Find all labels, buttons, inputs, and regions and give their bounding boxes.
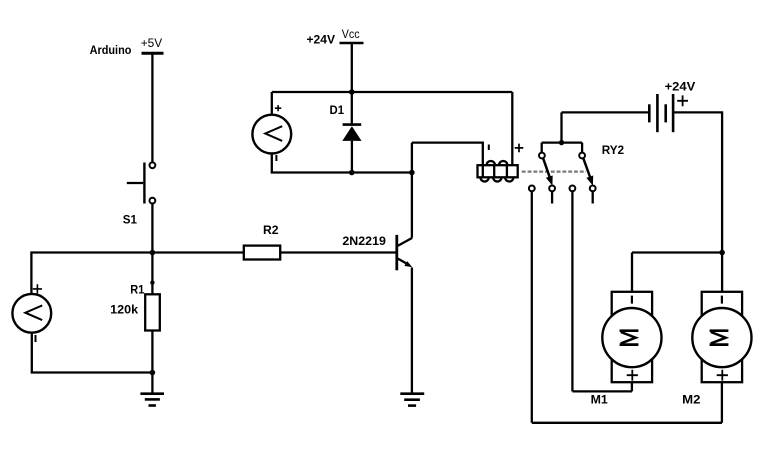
- wire contact3 to M1: [571, 191, 573, 391]
- relay contacts RY2: [529, 112, 596, 203]
- node junction Vcc rail: [349, 89, 355, 95]
- node junction collector/bottom rail: [409, 170, 415, 176]
- motor M1: [602, 253, 661, 392]
- resistor R2: [244, 246, 280, 260]
- svg-text:R1: R1: [130, 282, 144, 296]
- wire emitter down: [411, 268, 413, 394]
- svg-text:R2: R2: [263, 223, 279, 237]
- ground (emitter): [400, 394, 424, 406]
- node junction base: [150, 250, 156, 256]
- wire R2 to base: [280, 251, 396, 253]
- node junction relay top: [559, 140, 564, 145]
- svg-text:D1: D1: [330, 103, 345, 117]
- relay coil RY2: [478, 161, 518, 182]
- pushbutton S1: [127, 162, 156, 203]
- ground (under R1): [140, 373, 164, 406]
- power supply +24V Vcc: [340, 43, 364, 92]
- svg-text:120k: 120k: [110, 303, 138, 317]
- wire collector up: [411, 143, 413, 238]
- voltage probe V1 (middle): [252, 92, 291, 161]
- svg-text:Arduino: Arduino: [90, 43, 132, 57]
- wire top rail: [272, 91, 513, 93]
- diode D1: [342, 92, 361, 173]
- wire left source bottom: [32, 333, 153, 373]
- label coil plus: [515, 144, 524, 153]
- power supply +5V: [142, 53, 164, 162]
- wire S1 to base node: [151, 204, 153, 253]
- svg-text:S1: S1: [123, 212, 138, 226]
- svg-text:2N2219: 2N2219: [342, 234, 386, 248]
- wire bottom rail: [532, 422, 722, 424]
- label battery plus: [677, 95, 688, 106]
- svg-text:RY2: RY2: [602, 143, 625, 157]
- wire relay to battery: [562, 111, 650, 113]
- wire top rail to coil right terminal: [511, 92, 513, 165]
- label coil minus: [488, 145, 490, 151]
- voltage probe V2 (left): [12, 284, 51, 342]
- wire node to R1: [151, 253, 153, 295]
- svg-text:+24V: +24V: [665, 80, 696, 94]
- svg-text:Vcc: Vcc: [342, 27, 360, 41]
- transistor Q1 2N2219: [397, 235, 413, 270]
- wire middle source bottom rail: [272, 154, 412, 173]
- wire motor top rail: [632, 251, 722, 253]
- dashed mechanical link: [522, 171, 586, 173]
- svg-text:M2: M2: [682, 392, 701, 406]
- wire M1 bottom: [572, 390, 632, 392]
- wire battery to right rail: [673, 112, 722, 252]
- resistor R1: [145, 294, 160, 330]
- wire R1 to ground node: [151, 331, 153, 373]
- battery +24V: [649, 94, 673, 132]
- wire collector to coil left terminal: [412, 143, 483, 166]
- node junction ground: [150, 370, 156, 376]
- motor M2: [692, 253, 751, 423]
- wire node to R2: [152, 251, 243, 253]
- node junction D1 bottom: [349, 170, 355, 176]
- wire contact1 to bottom rail: [531, 191, 533, 422]
- node R1 top dot: [150, 280, 154, 284]
- node junction right rail: [719, 250, 725, 256]
- svg-text:+5V: +5V: [141, 36, 162, 50]
- svg-text:M1: M1: [591, 392, 609, 406]
- wire node to left source top: [31, 253, 152, 294]
- svg-text:+24V: +24V: [307, 32, 336, 46]
